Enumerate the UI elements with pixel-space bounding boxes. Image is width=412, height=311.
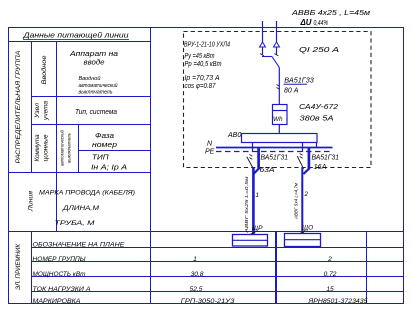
svg-text:МАРКА ПРОВОДА (КАБЕЛЯ): МАРКА ПРОВОДА (КАБЕЛЯ) [39,190,135,197]
svg-text:АВ0: АВ0 [227,132,241,139]
wire to main breaker [278,68,280,105]
contact tick L1 [260,54,264,57]
svg-text:ционные: ционные [43,134,50,162]
svg-text:вводе: вводе [84,58,105,66]
feeder 1 tap merge diagonal [254,168,260,174]
svg-text:Данные питающей линии: Данные питающей линии [22,31,128,40]
svg-text:Рр =40,5 кВт: Рр =40,5 кВт [185,61,222,68]
feeder 2 tap merge diagonal [303,168,310,174]
feeder 1 arrowhead at panel [251,231,257,235]
svg-text:QI 250 А: QI 250 А [299,45,339,54]
svg-text:cos φ=0.87: cos φ=0.87 [185,83,217,90]
svg-text:Фаза: Фаза [95,133,114,140]
svg-text:Вводной: Вводной [79,75,101,82]
svg-text:ВА51Г33: ВА51Г33 [284,78,314,85]
main breaker label underline [284,83,308,85]
svg-text:ВА51Г31: ВА51Г31 [312,155,340,162]
PE bus wire dashed [216,151,333,153]
svg-text:ЩО: ЩО [302,225,313,232]
svg-text:выключатель: выключатель [67,132,72,163]
svg-text:автоматический: автоматический [79,82,118,89]
feeder 2 phase drop wire [302,143,304,153]
svg-text:ВРУ-1-21-10 УХЛ4: ВРУ-1-21-10 УХЛ4 [184,42,230,49]
svg-text:МОЩНОСТЬ кВт: МОЩНОСТЬ кВт [33,271,87,278]
svg-text:ТРУБА, М: ТРУБА, М [55,220,96,227]
feeder 2 arrowhead at panel [300,230,306,234]
contact tick L2 [274,54,278,57]
svg-text:ЭЛ. ПРИЕМНИК: ЭЛ. ПРИЕМНИК [15,244,22,290]
svg-text:ЯРН8501-3723435: ЯРН8501-3723435 [307,298,367,305]
switch QI link wire [262,56,272,58]
svg-text:АВВБ 4х25 , L=45м: АВВБ 4х25 , L=45м [291,8,370,17]
svg-text:АВВГ 5х25 L=0,5м: АВВГ 5х25 L=0,5м [244,176,250,234]
svg-text:Тип, система: Тип, система [75,109,117,116]
svg-text:номер: номер [92,142,117,149]
svg-text:Iр =70,73 А: Iр =70,73 А [185,75,220,82]
feeder 2 N and PE tap wires [308,148,311,169]
feeder 2 breaker blade [297,156,303,169]
svg-text:ТОК НАГРУЗКИ А: ТОК НАГРУЗКИ А [33,286,91,293]
feeder 1 phase drop wire [252,143,254,153]
feeder 1 breaker contact tick [249,155,252,160]
incoming wire L2 lower stub [276,47,278,55]
svg-text:15: 15 [326,286,334,293]
svg-text:РАСПРЕДЕЛИТЕЛЬНАЯ ГРУППА: РАСПРЕДЕЛИТЕЛЬНАЯ ГРУППА [15,51,22,164]
svg-text:ТИП: ТИП [92,155,110,162]
busbar rectangle [242,134,318,143]
table horizontal grid lines [9,41,151,43]
svg-text:Вводное: Вводное [40,55,48,85]
svg-text:Iн А; Iр А: Iн А; Iр А [91,164,127,171]
svg-text:1: 1 [256,192,259,199]
svg-text:Линия: Линия [28,190,35,212]
svg-text:автоматический: автоматический [60,129,65,166]
svg-text:ДЛИНА,М: ДЛИНА,М [62,205,100,212]
feeder 1 breaker blade [247,157,254,169]
main breaker contact tick [277,85,280,90]
busbar to N connector wire [316,143,318,148]
svg-text:ГРП-3050-21У3: ГРП-3050-21У3 [181,298,235,305]
svg-text:30,8: 30,8 [191,271,204,278]
svg-text:ΔU: ΔU [300,18,312,27]
meter box СА4У-672 [273,105,288,125]
incoming wire L1 lower stub [262,47,264,55]
svg-text:63А: 63А [260,167,275,174]
wire meter to busbar [278,125,280,134]
plug contact arrow L1 [260,42,266,47]
switch QI blade [272,57,279,68]
svg-text:Аппарат на: Аппарат на [69,51,118,58]
svg-text:80 А: 80 А [284,88,299,95]
feeder 2 breaker contact tick [300,154,303,159]
svg-text:Ру =45 кВт: Ру =45 кВт [185,53,215,60]
svg-text:52,5: 52,5 [190,286,203,293]
svg-text:16А: 16А [314,164,327,171]
svg-text:СА4У-672: СА4У-672 [299,104,338,111]
table vertical grid lines [31,42,33,173]
svg-text:PE: PE [205,148,215,155]
svg-text:0,44%: 0,44% [314,18,329,27]
svg-text:ЩР: ЩР [252,225,263,232]
incoming wire L2 [276,21,278,43]
svg-text:Узел: Узел [34,103,41,120]
feeder 1 N and PE tap wires [257,148,260,169]
svg-text:ОБОЗНАЧЕНИЕ НА ПЛАНЕ: ОБОЗНАЧЕНИЕ НА ПЛАНЕ [33,242,126,249]
N bus wire [216,147,333,149]
svg-text:Коммута: Коммута [34,134,41,161]
svg-text:выключатель: выключатель [79,90,113,96]
svg-text:Wh: Wh [273,116,283,123]
svg-text:380в 5А: 380в 5А [300,116,334,123]
plug contact arrow L2 [274,42,280,47]
feeder 1 cable wire to ЩР [252,168,255,234]
feeder 2 cable wire to ЩО [301,168,303,234]
panel ЩО symbol outer [285,234,321,247]
svg-text:1: 1 [193,256,197,263]
svg-text:2: 2 [304,191,309,198]
svg-text:ВА51Г31: ВА51Г31 [261,155,289,162]
dashed enclosure box ВРУ [184,32,372,168]
panel ЩР symbol outer [233,235,268,247]
incoming wire L1 [262,21,264,43]
svg-text:учета: учета [43,100,50,121]
svg-text:МАРКИРОВКА: МАРКИРОВКА [33,298,81,305]
svg-text:2: 2 [327,256,332,263]
meter box top band line [273,110,288,112]
svg-text:НОМЕР ГРУППЫ: НОМЕР ГРУППЫ [33,256,86,263]
panel ЩО symbol divider [285,239,321,241]
svg-text:0,72: 0,72 [324,271,337,278]
panel ЩР symbol divider [233,239,268,241]
svg-text:АВВГ 5х4 L=4,7м: АВВГ 5х4 L=4,7м [294,182,300,220]
